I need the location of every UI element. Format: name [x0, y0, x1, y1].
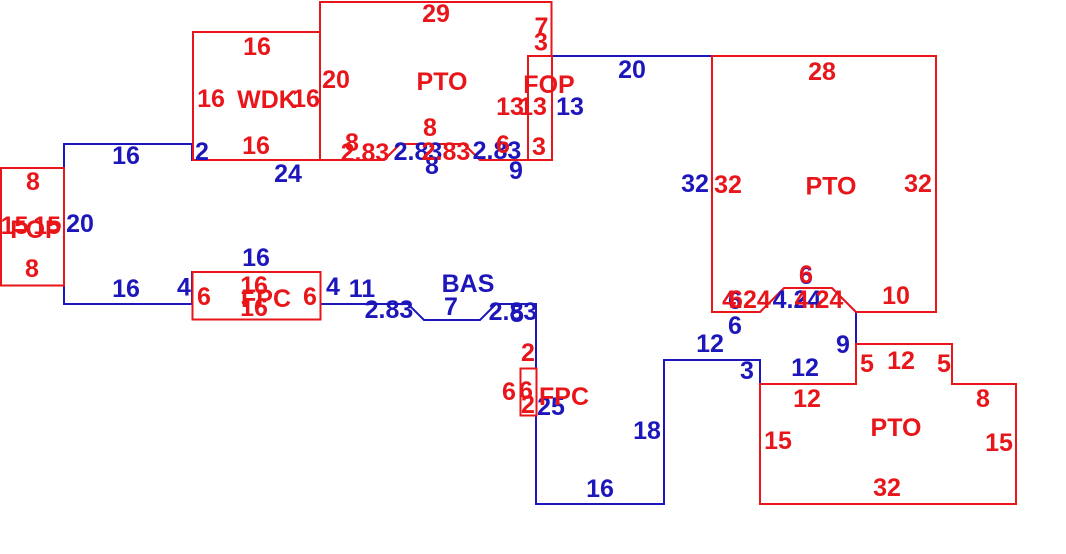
svg-text:4: 4: [177, 274, 191, 302]
svg-text:5: 5: [860, 350, 874, 378]
svg-text:15: 15: [33, 212, 61, 240]
svg-text:2.83: 2.83: [489, 298, 538, 326]
svg-text:16: 16: [586, 475, 614, 503]
svg-text:6: 6: [197, 283, 211, 311]
svg-text:6: 6: [502, 378, 516, 406]
svg-text:13: 13: [519, 93, 547, 121]
svg-text:BAS: BAS: [442, 270, 495, 298]
svg-text:18: 18: [633, 417, 661, 445]
svg-text:3: 3: [534, 29, 548, 57]
svg-text:20: 20: [66, 210, 94, 238]
svg-text:4: 4: [326, 273, 340, 301]
svg-text:PTO: PTO: [871, 414, 922, 442]
svg-text:20: 20: [618, 56, 646, 84]
svg-text:12: 12: [791, 354, 819, 382]
svg-text:16: 16: [240, 294, 268, 322]
svg-text:16: 16: [242, 132, 270, 160]
svg-text:6: 6: [728, 312, 742, 340]
svg-text:6: 6: [799, 261, 813, 289]
svg-text:16: 16: [292, 85, 320, 113]
svg-text:12: 12: [793, 385, 821, 413]
svg-text:6: 6: [496, 131, 510, 159]
svg-text:32: 32: [873, 474, 901, 502]
svg-text:28: 28: [808, 58, 836, 86]
svg-text:PTO: PTO: [417, 68, 468, 96]
svg-text:16: 16: [112, 142, 140, 170]
svg-text:16: 16: [242, 244, 270, 272]
svg-text:2: 2: [195, 138, 209, 166]
svg-text:8: 8: [25, 255, 39, 283]
svg-text:2.83: 2.83: [341, 139, 390, 167]
svg-text:PTO: PTO: [806, 173, 857, 201]
svg-text:3: 3: [740, 357, 754, 385]
svg-text:3: 3: [532, 133, 546, 161]
svg-text:9: 9: [509, 157, 523, 185]
svg-text:5: 5: [937, 350, 951, 378]
svg-text:8: 8: [976, 385, 990, 413]
svg-text:15: 15: [764, 427, 792, 455]
svg-text:9: 9: [836, 331, 850, 359]
svg-text:32: 32: [681, 170, 709, 198]
svg-text:24: 24: [274, 160, 302, 188]
svg-text:16: 16: [112, 275, 140, 303]
svg-text:32: 32: [904, 170, 932, 198]
svg-text:11: 11: [349, 275, 376, 303]
svg-text:4.24: 4.24: [722, 286, 771, 314]
svg-text:29: 29: [422, 0, 450, 28]
svg-text:FPC: FPC: [539, 383, 589, 411]
svg-text:16: 16: [197, 85, 225, 113]
svg-text:10: 10: [882, 282, 910, 310]
svg-text:2: 2: [521, 391, 535, 419]
svg-text:12: 12: [887, 347, 915, 375]
svg-text:20: 20: [322, 66, 350, 94]
svg-text:16: 16: [243, 33, 271, 61]
svg-text:2.83: 2.83: [422, 138, 471, 166]
svg-text:4.24: 4.24: [795, 286, 844, 314]
svg-text:15: 15: [985, 429, 1013, 457]
svg-text:32: 32: [714, 171, 742, 199]
svg-text:2: 2: [521, 339, 535, 367]
svg-text:12: 12: [696, 330, 724, 358]
svg-text:6: 6: [303, 283, 317, 311]
svg-text:WDK: WDK: [237, 86, 297, 114]
svg-text:8: 8: [26, 168, 40, 196]
